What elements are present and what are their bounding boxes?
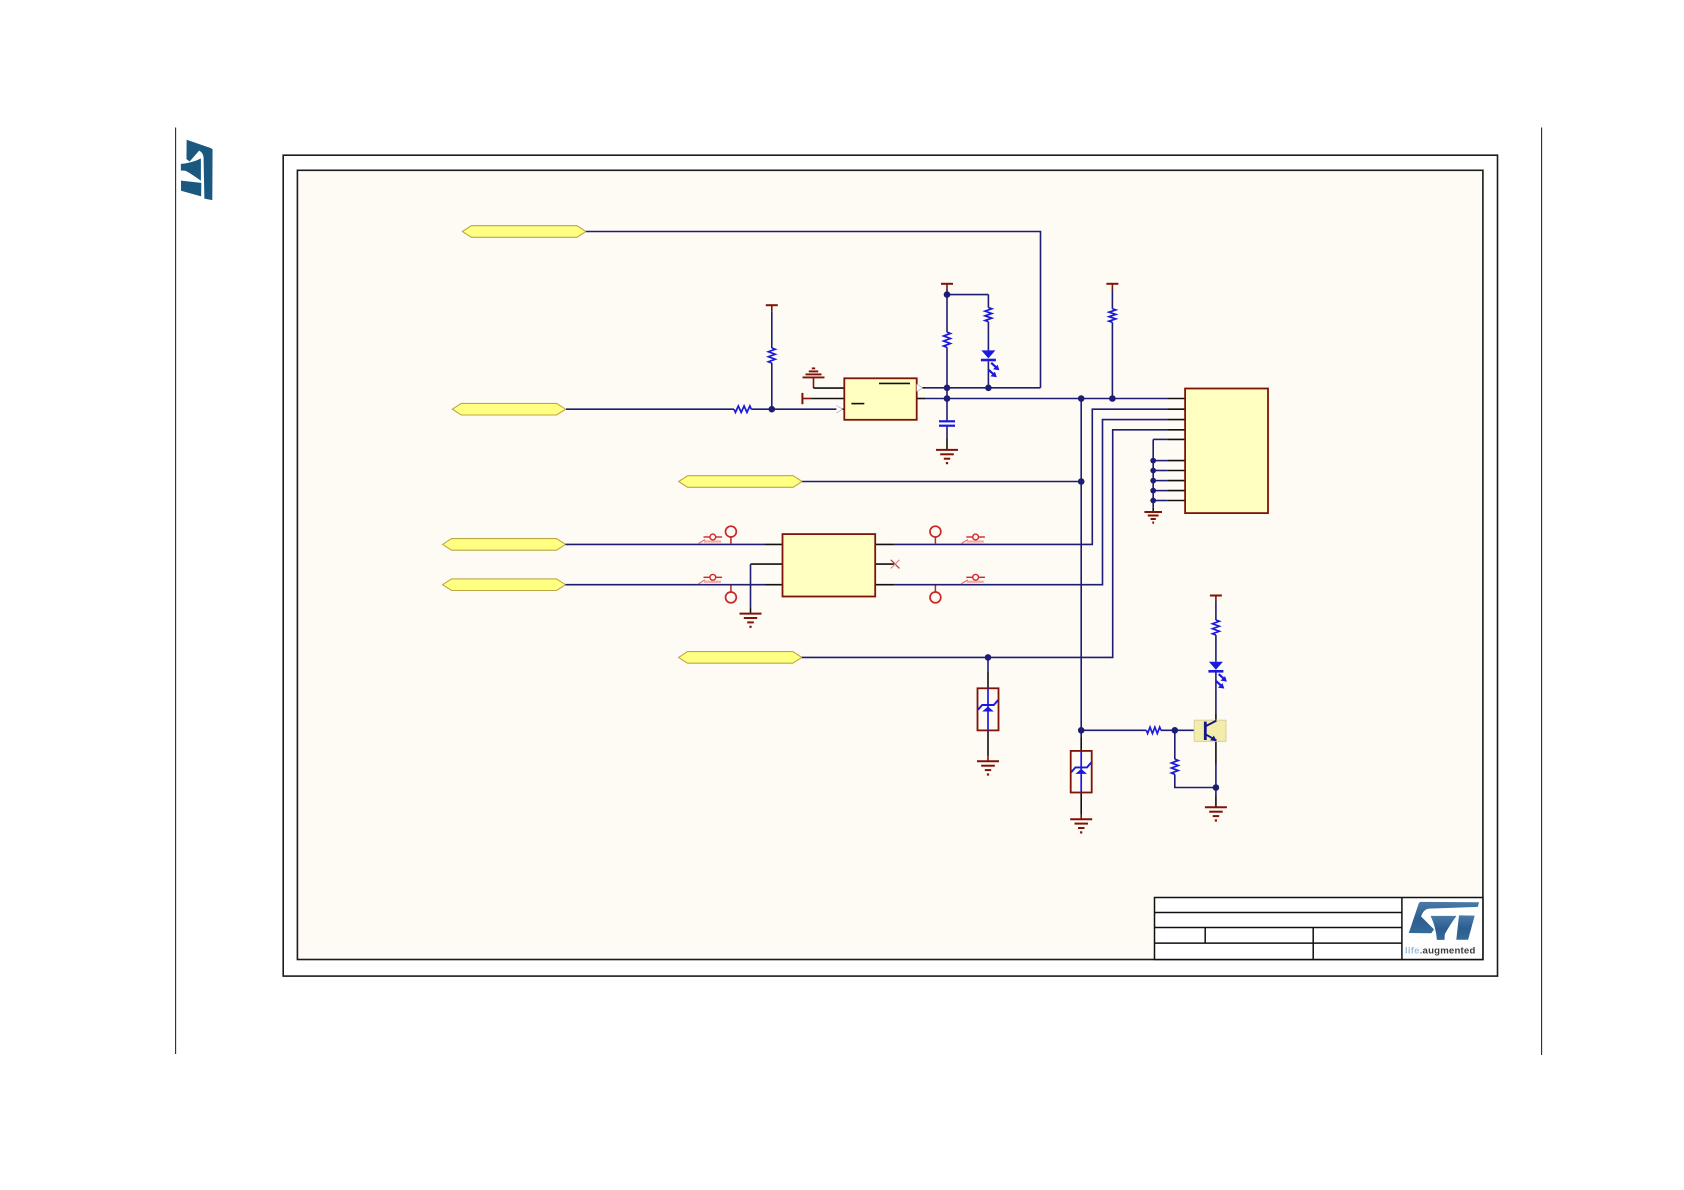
svg-text:life.augmented: life.augmented — [1405, 946, 1476, 957]
